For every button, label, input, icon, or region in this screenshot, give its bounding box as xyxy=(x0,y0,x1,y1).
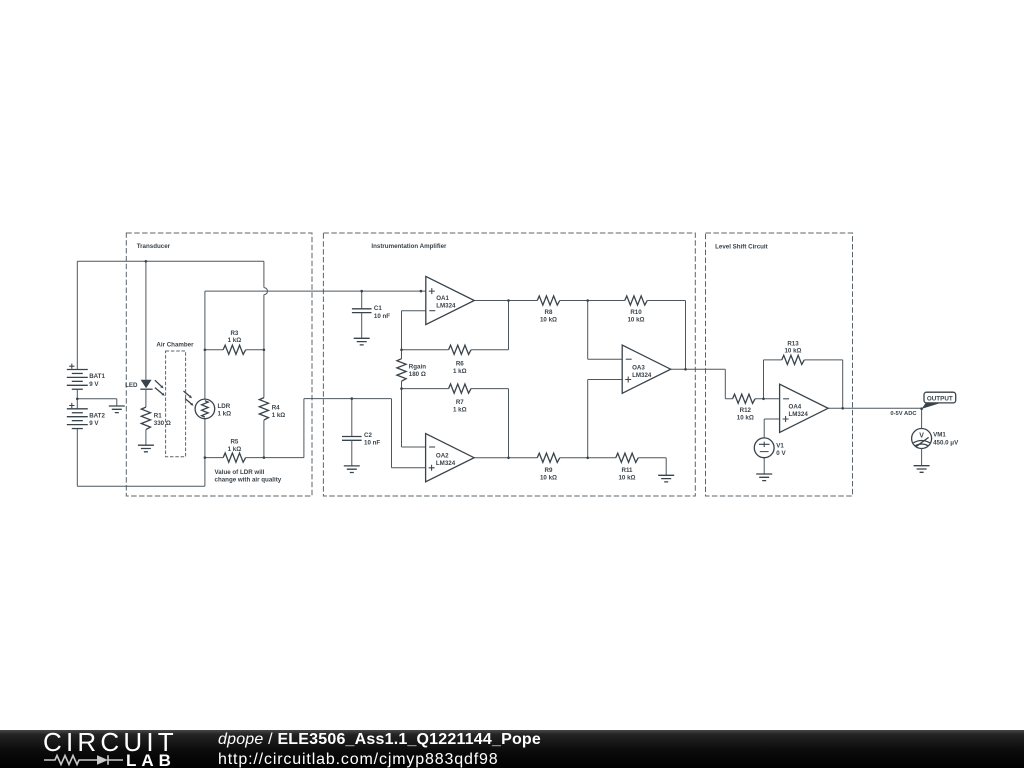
OUTPUT flag xyxy=(922,403,941,409)
wire: R8-R10 node and OA3 inverting column xyxy=(560,301,625,360)
svg-text:LM324: LM324 xyxy=(436,460,456,467)
svg-text:LDR: LDR xyxy=(218,403,231,410)
svg-text:330 Ω: 330 Ω xyxy=(154,420,171,427)
resistor R11 xyxy=(616,453,639,462)
junction node xyxy=(586,457,589,460)
ground (under C1) xyxy=(354,338,370,345)
svg-text:C2: C2 xyxy=(364,432,372,439)
wire: battery midpoint to ground xyxy=(77,389,117,409)
wire: battery column top xyxy=(76,261,78,369)
wire: V1 to ground xyxy=(763,458,765,474)
svg-text:Value of LDR will: Value of LDR will xyxy=(215,469,265,476)
svg-text:R8: R8 xyxy=(545,309,553,316)
wire: R5 leads xyxy=(205,457,264,459)
op-amp OA1 xyxy=(426,276,475,324)
svg-text:9 V: 9 V xyxy=(89,381,99,388)
wire: R6 left lead xyxy=(402,349,449,351)
wire: R11 right lead to ground xyxy=(638,458,666,476)
LED D1 xyxy=(141,380,152,388)
junction node xyxy=(351,397,354,400)
junction node xyxy=(420,290,423,293)
dashed section box: Level Shift Circuit xyxy=(706,233,853,496)
junction node xyxy=(400,387,403,390)
svg-text:R10: R10 xyxy=(630,309,642,316)
svg-text:1 kΩ: 1 kΩ xyxy=(453,368,467,375)
svg-text:10 kΩ: 10 kΩ xyxy=(627,316,644,323)
voltmeter VM1 xyxy=(912,429,932,449)
LED emission arrows xyxy=(155,380,161,386)
resistor R1 xyxy=(141,407,150,430)
wire: LED to R1 xyxy=(145,389,147,445)
junction node xyxy=(145,260,148,263)
dashed box: Air Chamber xyxy=(166,351,186,457)
svg-text:V: V xyxy=(919,432,924,439)
svg-text:LED: LED xyxy=(125,382,138,389)
wire: BAT2 bottom to bottom rail xyxy=(76,429,78,487)
LDR light arrows xyxy=(184,391,190,396)
resistor R9 xyxy=(537,453,560,462)
resistor R13 xyxy=(782,355,805,364)
wire: OA2 output to R9 xyxy=(474,457,537,459)
svg-text:R9: R9 xyxy=(545,467,553,474)
dashed section box: Transducer xyxy=(126,233,312,496)
logo LAB text xyxy=(126,751,176,768)
footer title line xyxy=(218,731,541,749)
svg-text:450.0 μV: 450.0 μV xyxy=(933,439,959,446)
svg-text:OUTPUT: OUTPUT xyxy=(927,395,953,402)
svg-text:Level Shift Circuit: Level Shift Circuit xyxy=(715,244,768,251)
junction node xyxy=(204,456,207,459)
svg-text:Instrumentation Amplifier: Instrumentation Amplifier xyxy=(371,243,447,250)
logo resistor-diode symbol xyxy=(44,753,128,767)
wire: OA1 inverting input + feedback column xyxy=(402,311,426,447)
wire: OA3 output into level shift xyxy=(671,369,733,399)
svg-text:1 kΩ: 1 kΩ xyxy=(228,337,242,344)
junction node xyxy=(841,407,844,410)
wire: C1 stub xyxy=(361,291,363,309)
wire: lower bridge node to OA2+ xyxy=(264,399,426,468)
ground (under VM1) xyxy=(914,466,930,473)
junction node xyxy=(920,407,923,410)
wire: LDR column xyxy=(204,291,206,458)
svg-text:R3: R3 xyxy=(230,330,238,337)
svg-text:9 V: 9 V xyxy=(89,420,99,427)
svg-text:change with air quality: change with air quality xyxy=(215,477,282,484)
svg-text:1 kΩ: 1 kΩ xyxy=(228,446,242,453)
svg-text:BAT1: BAT1 xyxy=(89,373,105,380)
resistor Rgain xyxy=(397,359,406,382)
svg-text:OA2: OA2 xyxy=(436,453,449,460)
svg-text:LM324: LM324 xyxy=(632,372,652,379)
svg-text:C1: C1 xyxy=(374,305,382,312)
svg-text:0 V: 0 V xyxy=(776,450,786,457)
svg-text:Transducer: Transducer xyxy=(137,243,171,250)
svg-text:OA3: OA3 xyxy=(632,364,645,371)
svg-text:R6: R6 xyxy=(456,360,464,367)
junction node xyxy=(586,299,589,302)
resistor R12 xyxy=(733,394,756,403)
footer url line xyxy=(218,751,499,768)
wire: C1 to ground xyxy=(361,313,363,339)
junction node xyxy=(400,349,403,352)
battery BAT1 xyxy=(67,369,88,371)
svg-text:Air Chamber: Air Chamber xyxy=(156,342,194,349)
wire: C2 to ground xyxy=(351,440,353,466)
svg-text:10 kΩ: 10 kΩ xyxy=(784,348,801,355)
op-amp OA4 xyxy=(780,384,829,432)
wire: R13 feedback loop xyxy=(764,360,843,408)
CircuitLab logo text xyxy=(43,727,178,758)
junction node xyxy=(684,368,687,371)
svg-text:10 kΩ: 10 kΩ xyxy=(540,474,557,481)
wire: R9-R11 node and OA3 non-inverting column xyxy=(560,380,622,458)
svg-text:OA4: OA4 xyxy=(789,403,802,410)
svg-text:1 kΩ: 1 kΩ xyxy=(453,407,467,414)
svg-text:10 kΩ: 10 kΩ xyxy=(618,474,635,481)
junction node xyxy=(360,290,363,293)
resistor R5 xyxy=(223,453,246,462)
wire: OA1 output to R6/R8 column xyxy=(471,301,537,350)
logo diode xyxy=(97,755,108,765)
wire: R7 leads + right column to OA2 output xyxy=(402,389,509,458)
wire: R4 leads xyxy=(263,350,265,458)
svg-text:1 kΩ: 1 kΩ xyxy=(218,411,232,418)
svg-text:BAT2: BAT2 xyxy=(89,413,105,420)
junction node xyxy=(76,398,79,401)
svg-text:LM324: LM324 xyxy=(789,411,809,418)
svg-text:10 kΩ: 10 kΩ xyxy=(737,414,754,421)
svg-text:R11: R11 xyxy=(621,467,633,474)
ground (battery midpoint) xyxy=(109,406,125,413)
wire: +9V top rail xyxy=(77,260,264,262)
junction node xyxy=(762,398,765,401)
wire: OA4 non-inverting to V1 xyxy=(764,419,779,438)
svg-text:R4: R4 xyxy=(272,405,280,412)
wire: VM1 stub from output node xyxy=(921,409,923,466)
voltage source V1 xyxy=(754,438,774,458)
wire: R12 right lead to OA4- xyxy=(755,398,780,400)
wire: LED branch drop xyxy=(145,261,147,380)
junction node xyxy=(507,299,510,302)
wire: C2 stub xyxy=(351,399,353,437)
junction node xyxy=(263,456,266,459)
resistor R8 xyxy=(537,296,560,305)
wire: right bridge column with hop over top-node wire xyxy=(263,261,265,287)
wire: R3 leads xyxy=(205,349,264,351)
svg-text:OA1: OA1 xyxy=(436,295,449,302)
junction node xyxy=(507,457,510,460)
svg-text:R7: R7 xyxy=(456,399,464,406)
wire: top bridge node to OA1+ xyxy=(205,290,426,292)
svg-text:V1: V1 xyxy=(776,442,784,449)
resistor R10 xyxy=(625,296,648,305)
svg-text:Rgain: Rgain xyxy=(409,364,426,371)
svg-text:R5: R5 xyxy=(230,439,238,446)
junction node xyxy=(204,349,207,352)
svg-text:10 nF: 10 nF xyxy=(374,313,390,320)
resistor R3 xyxy=(223,345,246,354)
svg-text:R1: R1 xyxy=(154,412,162,419)
ground (under V1) xyxy=(756,474,772,481)
dashed section box: Instrumentation Amplifier xyxy=(323,233,695,496)
capacitor C2 xyxy=(342,437,362,441)
photoresistor LDR xyxy=(195,399,215,419)
svg-text:LM324: LM324 xyxy=(436,303,456,310)
wire: OA4 output to OUTPUT node xyxy=(828,407,922,409)
battery BAT2 xyxy=(67,408,88,410)
svg-text:1 kΩ: 1 kΩ xyxy=(272,412,286,419)
logo wire+resistor xyxy=(44,756,97,765)
wire: bottom rail xyxy=(77,458,205,487)
svg-text:180 Ω: 180 Ω xyxy=(409,371,426,378)
svg-text:R13: R13 xyxy=(787,340,799,347)
resistor R6 xyxy=(449,345,472,354)
capacitor C1 xyxy=(352,309,372,313)
op-amp OA3 xyxy=(622,345,671,393)
op-amp OA2 xyxy=(426,434,475,482)
svg-text:R12: R12 xyxy=(740,407,752,414)
svg-text:10 nF: 10 nF xyxy=(364,439,380,446)
ground (under R1) xyxy=(138,445,154,452)
resistor R7 xyxy=(449,384,472,393)
ground (under R11) xyxy=(658,475,674,482)
wire: R10 right lead down to OA3 output xyxy=(647,301,685,370)
junction node xyxy=(263,349,266,352)
resistor R4 xyxy=(259,398,268,421)
ground (under C2) xyxy=(344,466,360,473)
svg-text:VM1: VM1 xyxy=(933,432,946,439)
svg-text:0-5V ADC: 0-5V ADC xyxy=(890,411,917,417)
svg-text:10 kΩ: 10 kΩ xyxy=(540,316,557,323)
footer bar xyxy=(0,730,1024,768)
